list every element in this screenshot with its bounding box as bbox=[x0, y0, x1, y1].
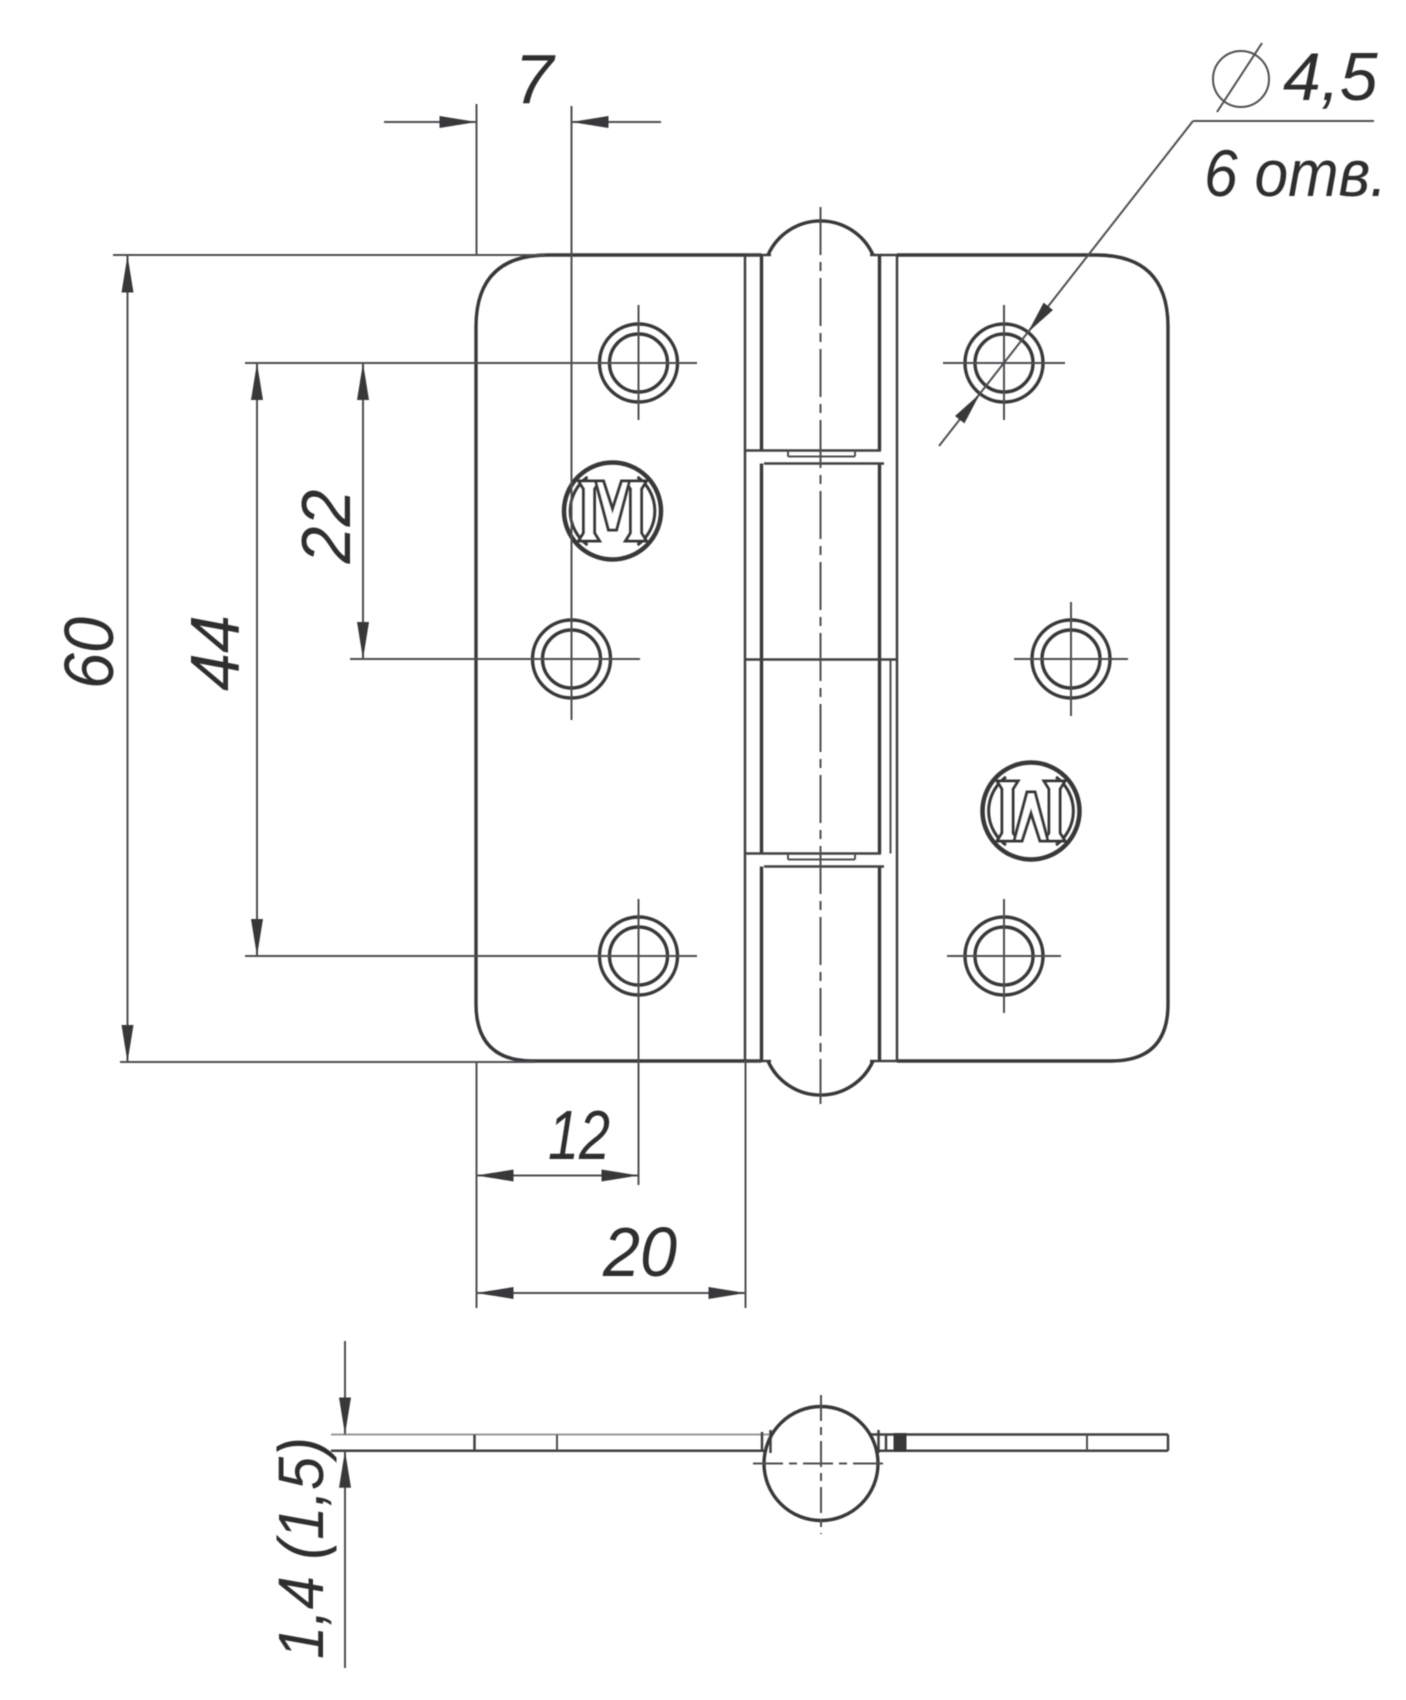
extension line top edge left bbox=[113, 254, 545, 256]
extension line leaf edge below plate bbox=[745, 1061, 747, 1308]
side junction tick right bbox=[877, 1430, 880, 1453]
side tick left bbox=[556, 1435, 558, 1451]
hole A1 top-left bbox=[600, 305, 678, 420]
right leaf outline bbox=[897, 255, 1168, 1061]
extension line bottom edge left bbox=[120, 1061, 535, 1063]
pin centerline bbox=[820, 207, 822, 1104]
dimension 60 bbox=[50, 256, 134, 1063]
knuckle bottom dome bbox=[768, 1061, 873, 1095]
side center cross bbox=[753, 1463, 889, 1465]
dimension 1,4 (1,5) bbox=[344, 1341, 346, 1435]
svg-text:1,4 (1,5): 1,4 (1,5) bbox=[265, 1437, 337, 1659]
knuckle joint 1 bbox=[746, 451, 884, 464]
hole B1 top-right bbox=[943, 305, 1065, 420]
leader diameter 4,5 bbox=[939, 39, 1387, 446]
dimension 44 bbox=[176, 363, 263, 956]
left leaf outline bbox=[476, 255, 762, 1061]
extension line mid hole column bbox=[571, 106, 573, 720]
knuckle barrel right edge bbox=[878, 255, 881, 1061]
side junction ticks left bbox=[761, 1432, 764, 1452]
center line middle hole row bbox=[350, 658, 640, 660]
svg-text:4,5: 4,5 bbox=[1283, 39, 1378, 115]
side filled section bbox=[894, 1433, 907, 1452]
top edge segments at knuckle bbox=[745, 254, 771, 257]
svg-text:60: 60 bbox=[50, 617, 128, 689]
hole A2 middle-left bbox=[533, 620, 611, 698]
bottom edge segments at knuckle bbox=[745, 1060, 771, 1063]
center line bottom holes row bbox=[245, 955, 697, 957]
side leaf right end cap bbox=[1167, 1435, 1170, 1451]
dimension 7 bbox=[384, 40, 661, 128]
hole B3 bottom-right bbox=[947, 899, 1061, 1013]
side barrel circle bbox=[764, 1407, 878, 1521]
logo M left bbox=[564, 463, 661, 560]
svg-text:22: 22 bbox=[287, 490, 365, 565]
hole A3 bottom-left bbox=[600, 899, 678, 1185]
extension line left edge above plate bbox=[476, 104, 478, 255]
side leaf top edge left bbox=[331, 1434, 772, 1436]
side leaf bottom edge bbox=[331, 1450, 766, 1453]
svg-text:12: 12 bbox=[548, 1096, 610, 1174]
svg-text:44: 44 bbox=[176, 615, 254, 691]
hole B2 middle-right bbox=[1014, 602, 1128, 716]
side tick right bbox=[1086, 1435, 1088, 1451]
right leaf inner edge bbox=[896, 255, 899, 1061]
dimension 12 bbox=[477, 1096, 639, 1182]
left leaf inner edge bbox=[744, 255, 747, 1061]
side leaf top edge right bbox=[870, 1433, 1168, 1436]
dimension 20 bbox=[477, 1213, 746, 1299]
side tick near barrel bbox=[885, 1435, 888, 1451]
extension line left edge below plate bbox=[476, 1061, 478, 1308]
svg-text:7: 7 bbox=[515, 40, 557, 118]
side view bbox=[265, 1341, 1168, 1668]
knuckle joint 2 bbox=[745, 658, 897, 661]
knuckle barrel left edge bbox=[760, 255, 763, 1061]
dimension 22 bbox=[287, 363, 369, 659]
center line top holes row bbox=[245, 362, 697, 364]
knuckle top dome bbox=[768, 221, 873, 255]
side leaf left end cap bbox=[473, 1435, 476, 1451]
knuckle segment 3 outer line bbox=[890, 660, 892, 854]
svg-text:6 отв.: 6 отв. bbox=[1204, 136, 1387, 210]
svg-text:20: 20 bbox=[602, 1213, 677, 1291]
logo M right (rotated) bbox=[983, 763, 1080, 860]
knuckle joint 3 bbox=[746, 854, 884, 867]
